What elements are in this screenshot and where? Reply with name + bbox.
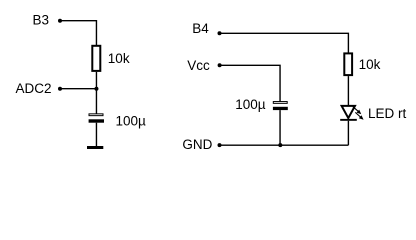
wire capacitor C1 to ground bbox=[95, 123, 97, 146]
wire ADC2 to junction bbox=[60, 88, 96, 90]
ground symbol left bbox=[87, 146, 103, 149]
resistor R2 10k bbox=[344, 53, 352, 75]
LED D1 triangle bbox=[342, 106, 355, 118]
capacitor C2 negative plate bbox=[273, 107, 288, 110]
svg-text:ADC2: ADC2 bbox=[16, 81, 52, 96]
wire GND rail bbox=[220, 144, 349, 146]
wire B3 to resistor R1 top bbox=[60, 21, 96, 46]
junction dot capacitor C2 to GND rail bbox=[278, 143, 282, 147]
wire LED D1 cathode to GND rail bbox=[347, 121, 349, 145]
svg-text:10k: 10k bbox=[359, 57, 381, 72]
svg-text:10k: 10k bbox=[108, 51, 130, 66]
wire resistor R2 bottom to LED D1 anode bbox=[347, 76, 349, 105]
svg-text:B3: B3 bbox=[33, 12, 50, 27]
wire resistor R1 bottom to node ADC2 junction bbox=[95, 72, 97, 89]
svg-text:100µ: 100µ bbox=[235, 97, 266, 112]
node B3 terminal dot bbox=[58, 19, 62, 23]
svg-text:Vcc: Vcc bbox=[187, 58, 210, 73]
LED D1 cathode bar bbox=[340, 119, 357, 121]
resistor R1 10k bbox=[92, 46, 100, 71]
node Vcc terminal dot bbox=[218, 63, 222, 67]
LED D1 light arrow 1 bbox=[353, 107, 362, 115]
capacitor C1 positive plate bbox=[89, 114, 103, 116]
node GND terminal dot bbox=[218, 143, 222, 147]
svg-text:GND: GND bbox=[182, 137, 212, 152]
capacitor C2 positive plate bbox=[273, 102, 287, 104]
wire capacitor C2 to GND rail bbox=[279, 110, 281, 145]
svg-text:B4: B4 bbox=[192, 21, 209, 36]
svg-text:100µ: 100µ bbox=[116, 113, 147, 128]
capacitor C1 negative plate bbox=[89, 119, 104, 122]
wire junction to capacitor C1 top bbox=[95, 89, 97, 114]
node B4 terminal dot bbox=[218, 31, 222, 35]
node ADC2 terminal dot bbox=[58, 87, 62, 91]
wire Vcc to capacitor C2 top bbox=[220, 65, 280, 101]
svg-text:LED rt: LED rt bbox=[368, 106, 407, 121]
junction dot ADC2 node bbox=[94, 87, 98, 91]
wire B4 to resistor R2 top bbox=[220, 33, 349, 53]
LED D1 light arrow 2 bbox=[355, 112, 363, 119]
